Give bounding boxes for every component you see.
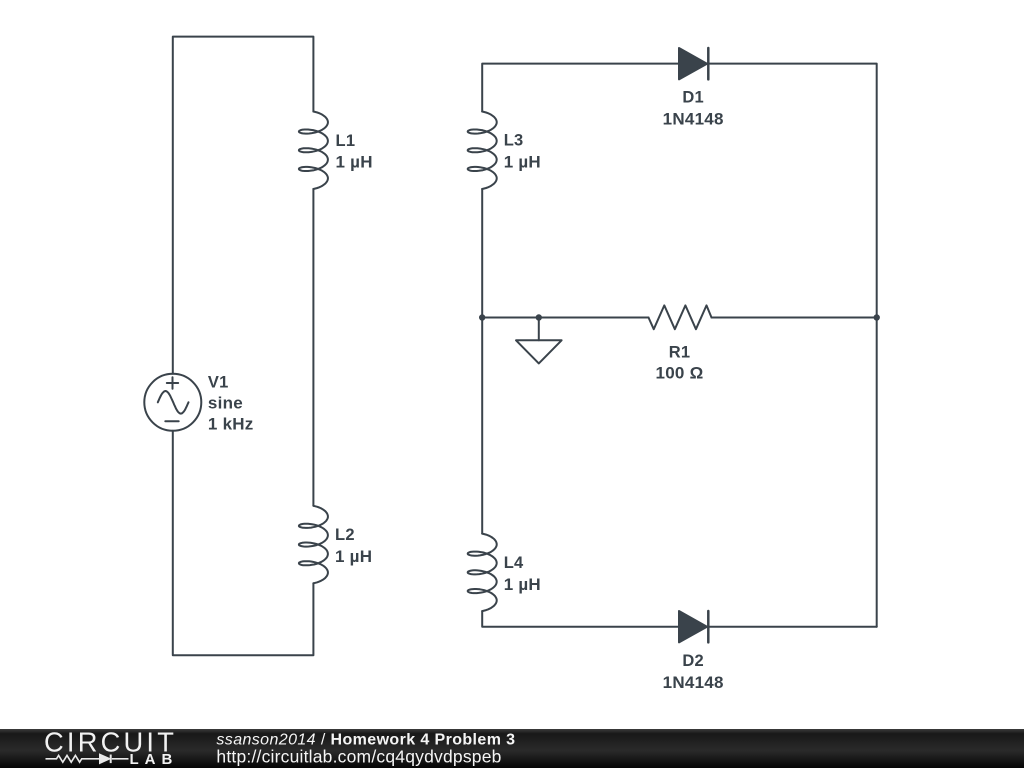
label L4 <box>504 554 541 594</box>
wire: right loop top-left, to D1 <box>482 64 679 112</box>
label D2 <box>663 652 724 692</box>
logo mini schematic <box>46 755 129 764</box>
wire: middle net right segment <box>712 317 877 319</box>
node: junction left <box>479 314 485 320</box>
svg-text:L3: L3 <box>504 132 524 150</box>
voltage source V1 <box>144 374 201 431</box>
node: junction ground tap <box>536 314 542 320</box>
svg-text:100 Ω: 100 Ω <box>656 363 704 382</box>
label L2 <box>335 526 372 566</box>
svg-text:1 µH: 1 µH <box>504 152 541 171</box>
svg-text:1 µH: 1 µH <box>504 575 541 594</box>
svg-text:1N4148: 1N4148 <box>663 673 724 692</box>
wire: left loop bottom <box>173 431 314 656</box>
svg-text:V1: V1 <box>208 373 229 391</box>
svg-text:sine: sine <box>208 393 243 412</box>
svg-text:1 µH: 1 µH <box>336 153 373 172</box>
footer bar <box>0 729 1024 768</box>
diode D1 <box>679 48 708 79</box>
logo LAB <box>130 751 179 768</box>
svg-text:R1: R1 <box>669 343 691 361</box>
svg-text:1N4148: 1N4148 <box>663 109 724 128</box>
label L1 <box>336 132 373 172</box>
svg-text:http://circuitlab.com/cq4qydvd: http://circuitlab.com/cq4qydvdpspeb <box>216 746 501 766</box>
svg-text:D1: D1 <box>682 89 704 107</box>
wire: D1 to top-right corner, down right side <box>708 64 876 627</box>
svg-text:L4: L4 <box>504 554 524 572</box>
wire: between L1 and L2 <box>312 189 314 506</box>
label R1 <box>656 343 704 382</box>
wire: D2 to bottom-right corner <box>708 626 876 628</box>
wire: left loop top and right side to L1 <box>173 37 314 374</box>
inductor L2 <box>299 506 328 584</box>
label V1 <box>208 373 254 433</box>
footer text line 1 <box>216 732 515 749</box>
inductor L1 <box>299 112 328 190</box>
wire: L4 to bottom-left corner, to D2 <box>482 611 679 627</box>
inductor L3 <box>468 112 497 190</box>
resistor R1 <box>649 305 712 329</box>
logo CIRCUIT <box>44 727 177 758</box>
svg-text:D2: D2 <box>682 652 704 670</box>
svg-text:LAB: LAB <box>130 751 179 768</box>
ground <box>516 318 562 364</box>
wire: middle net left segment <box>482 317 648 319</box>
footer text line 2 <box>216 746 501 766</box>
label L3 <box>504 132 541 172</box>
svg-text:1 kHz: 1 kHz <box>208 414 254 433</box>
wire: L3 bottom to L4 top <box>481 189 483 534</box>
label D1 <box>663 89 724 129</box>
node: junction right <box>874 314 880 320</box>
svg-text:L2: L2 <box>335 526 355 544</box>
inductor L4 <box>468 534 497 612</box>
svg-text:L1: L1 <box>336 132 356 150</box>
svg-text:1 µH: 1 µH <box>335 547 372 566</box>
diode D2 <box>679 611 708 642</box>
